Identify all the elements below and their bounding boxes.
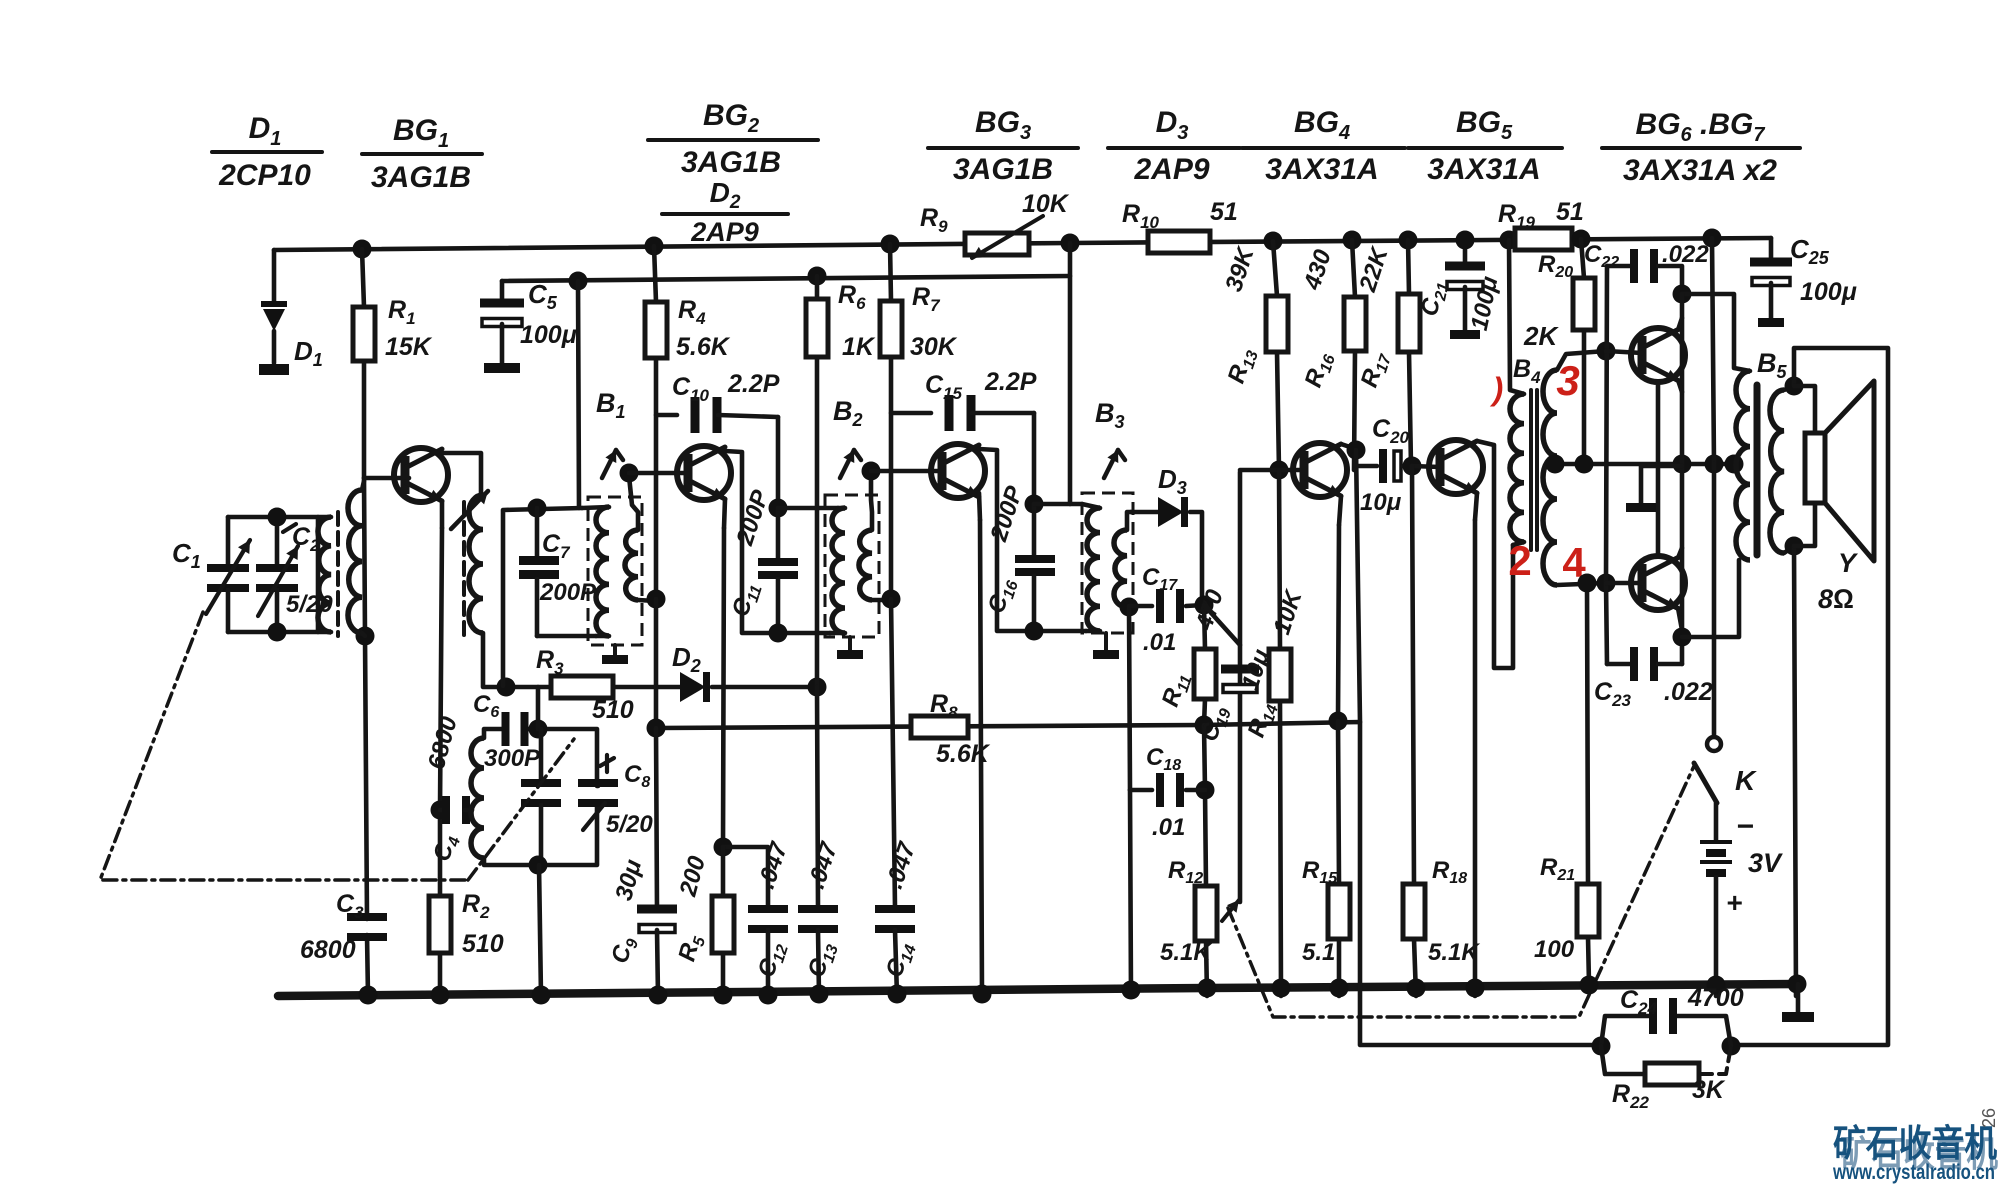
wire osc tank box	[484, 729, 597, 865]
label battery 3V	[1748, 848, 1783, 878]
svg-text:C4: C4	[428, 832, 464, 865]
wire R5 C12 jog	[723, 847, 768, 908]
svg-text:B5: B5	[1757, 348, 1788, 382]
label header BG2/3AG1B	[648, 99, 818, 179]
capacitor C9 electrolytic	[637, 728, 677, 996]
label R2 510	[462, 890, 504, 958]
transformer B4 primary	[1509, 240, 1524, 545]
svg-text:3AG1B: 3AG1B	[371, 161, 471, 194]
node R19 right rail junction	[1572, 230, 1591, 249]
resistor R13	[1266, 241, 1288, 470]
wire BG2 collector path	[725, 451, 830, 633]
wire BG6 emitter to BG7 collector	[1656, 382, 1661, 556]
wire BG3 emitter line	[979, 493, 982, 996]
node tap junction 1	[1546, 455, 1565, 474]
svg-text:D1: D1	[249, 112, 282, 150]
capacitor C21 electrolytic	[1445, 240, 1485, 339]
node R15 bottom rail junction	[1330, 979, 1349, 998]
svg-text:B4: B4	[1513, 355, 1541, 387]
node R6 top rail2 junction	[808, 267, 827, 286]
svg-text:R10: R10	[1122, 200, 1160, 232]
wire R1 line down to antenna coil bottom	[364, 478, 365, 636]
wire B3 slug arrow	[1104, 450, 1125, 478]
label C13 .047	[803, 838, 844, 982]
svg-text:BG6 .BG7: BG6 .BG7	[1636, 108, 1766, 146]
svg-text:Y: Y	[1838, 548, 1859, 578]
svg-text:C9: C9	[606, 934, 642, 967]
node R14 bottom rail junction	[1272, 979, 1291, 998]
wire antenna coil core	[336, 512, 340, 636]
node R2 bottom rail junction	[431, 986, 450, 1005]
svg-text:R12: R12	[1168, 857, 1203, 887]
svg-text:R4: R4	[678, 296, 706, 328]
svg-text:6800: 6800	[300, 936, 356, 964]
node battery bottom rail junction	[1707, 976, 1726, 995]
svg-text:1K: 1K	[842, 333, 876, 361]
node C22 right junction	[1673, 285, 1692, 304]
label R10 51	[1122, 198, 1238, 232]
label page number	[1979, 1108, 1999, 1128]
label C8 5/20	[606, 761, 653, 838]
svg-text:R6: R6	[838, 281, 866, 313]
wire R6 line down through D2 node	[817, 687, 818, 908]
wire C18 line to bottom rail	[1130, 790, 1131, 996]
node BG5 emitter bottom rail junction	[1466, 979, 1485, 998]
label red mark 2	[1508, 537, 1531, 584]
svg-text:D3: D3	[1158, 464, 1187, 498]
capacitor C5 electrolytic	[480, 281, 524, 373]
label C2 5/20	[286, 523, 333, 618]
label C17 .01	[1142, 564, 1178, 656]
node speaker line bottom rail junction	[1788, 975, 1807, 994]
label D3	[1158, 464, 1187, 498]
svg-text:2AP9: 2AP9	[1133, 153, 1209, 186]
wire osc coil bottom to R3 node	[483, 633, 551, 687]
svg-text:R2: R2	[462, 890, 490, 922]
svg-text:C12: C12	[753, 939, 792, 982]
resistor R21	[1577, 583, 1599, 984]
node tank bottom junction	[529, 856, 548, 875]
label header D2/2AP9	[662, 177, 788, 247]
wire AGC bus rail3	[656, 722, 1601, 1045]
svg-text:R21: R21	[1540, 854, 1575, 884]
diode D2	[680, 672, 707, 702]
label header BG6.BG7/3AX31Ax2	[1602, 108, 1800, 187]
inductor oscillator coil	[469, 495, 483, 633]
capacitor C16	[1015, 504, 1055, 631]
svg-text:39K: 39K	[1220, 243, 1260, 295]
node R7 top rail junction	[881, 235, 900, 254]
label header BG3/3AG1B	[928, 106, 1078, 186]
label R13 39K	[1220, 243, 1262, 388]
potentiometer R12	[1195, 886, 1239, 941]
svg-text:C24: C24	[1620, 986, 1658, 1018]
label R12 5.1K	[1160, 857, 1212, 966]
node C16 top junction	[1025, 495, 1044, 514]
wire B3 feed drop	[1068, 243, 1073, 504]
node D2 output junction	[808, 678, 827, 697]
ground bottom rail end	[1782, 984, 1814, 1022]
transformer B3 primary	[1082, 504, 1100, 631]
svg-text:C10: C10	[672, 373, 710, 405]
svg-text:BG5: BG5	[1456, 106, 1513, 144]
wire osc coil slug arrow	[451, 491, 488, 529]
svg-text:+: +	[1726, 887, 1742, 918]
wire R12 line	[1204, 725, 1207, 996]
watermark ghost	[1840, 1133, 1998, 1174]
node BG6 base junction	[1597, 342, 1616, 361]
label header BG4/3AX31A	[1242, 106, 1405, 186]
label R4 5.6K	[676, 296, 731, 361]
svg-text:C6: C6	[473, 691, 499, 721]
svg-text:2: 2	[1508, 537, 1531, 584]
variable capacitor C2	[256, 517, 298, 632]
transistor BG7	[1631, 556, 1685, 610]
svg-text:6800: 6800	[423, 713, 463, 772]
svg-text:C5: C5	[528, 279, 558, 313]
svg-text:100μ: 100μ	[520, 321, 577, 349]
wire bottom ground rail	[278, 984, 1798, 996]
label C9 30u	[606, 856, 647, 967]
svg-text:C20: C20	[1372, 415, 1410, 447]
svg-text:−: −	[1736, 810, 1754, 843]
wire B2 primary top wire	[778, 506, 838, 511]
wire C7 loop	[503, 508, 596, 686]
svg-text:C18: C18	[1146, 744, 1181, 774]
transformer B3 secondary	[1114, 512, 1131, 607]
svg-text:D2: D2	[672, 642, 701, 676]
svg-text:R16: R16	[1300, 349, 1339, 392]
node B5 secondary bottom junction	[1785, 537, 1804, 556]
node C16 bottom junction	[1025, 622, 1044, 641]
label R19 51	[1498, 198, 1584, 232]
svg-text:2CP10: 2CP10	[218, 159, 311, 192]
capacitor C12	[748, 905, 788, 996]
wire BG7 base wire	[1606, 581, 1642, 586]
label C22 .022	[1584, 241, 1709, 271]
node rail junction power feed	[1703, 229, 1722, 248]
svg-text:.022: .022	[1662, 241, 1709, 268]
transformer B4 core	[1531, 390, 1537, 550]
node C21 rail junction	[1456, 231, 1475, 250]
svg-text:.047: .047	[881, 838, 922, 892]
svg-text:C8: C8	[624, 761, 650, 791]
wire BG4 emitter line	[1338, 496, 1341, 721]
svg-text:R20: R20	[1538, 251, 1573, 281]
svg-text:R11: R11	[1157, 669, 1196, 711]
svg-text:R17: R17	[1356, 348, 1396, 392]
resistor R10	[1148, 231, 1210, 253]
label C23 .022	[1594, 678, 1713, 710]
svg-text:R8: R8	[930, 690, 958, 722]
svg-text:300P: 300P	[484, 745, 541, 772]
svg-text:3AX31A: 3AX31A	[1427, 153, 1540, 186]
wire BG7 emitter to B5 primary bottom	[1682, 560, 1739, 637]
label R1 15K	[385, 296, 433, 361]
svg-text:B2: B2	[833, 396, 863, 430]
label red mark 3	[1556, 357, 1579, 404]
wire BG6 emitter stub	[1678, 380, 1682, 392]
svg-text:200P: 200P	[985, 482, 1029, 546]
node R21 bottom rail junction	[1580, 976, 1599, 995]
diode D1	[259, 250, 289, 375]
svg-text:200P: 200P	[731, 486, 775, 550]
node tap junction R20	[1575, 455, 1594, 474]
wire C22 to B5 primary top	[1682, 294, 1750, 371]
label B1	[596, 388, 626, 422]
resistor R20	[1573, 239, 1595, 464]
node rail3 left junction	[647, 719, 666, 738]
svg-text:.022: .022	[1664, 678, 1713, 706]
label R5 200	[673, 853, 711, 965]
svg-text:51: 51	[1556, 198, 1584, 226]
node BG3 emitter bottom rail junction	[973, 985, 992, 1004]
label R3 510	[536, 646, 634, 724]
wire osc coil core dashed	[462, 502, 466, 640]
label C11 200P	[727, 486, 775, 621]
node C13 bottom rail junction	[810, 985, 829, 1004]
label D1	[294, 336, 323, 370]
capacitor C11	[758, 508, 798, 633]
node C2 bottom junction	[268, 623, 287, 642]
diode D3	[1131, 497, 1202, 605]
wire antenna line down to C3 and bottom rail	[365, 636, 368, 996]
node rail1 junction B3 feed	[1061, 234, 1080, 253]
label B5	[1757, 348, 1788, 382]
wire BG3 base wire	[871, 469, 943, 474]
label C24 4700	[1620, 984, 1744, 1018]
svg-text:BG3: BG3	[975, 106, 1031, 144]
label R16 430	[1299, 246, 1339, 392]
transistor BG2	[677, 446, 731, 500]
label R11 470	[1157, 586, 1229, 711]
ground center bias	[1626, 466, 1682, 512]
svg-text:D2: D2	[710, 177, 741, 213]
svg-text:10K: 10K	[1268, 586, 1308, 638]
node C11 bottom junction	[769, 624, 788, 643]
wire tank top up to R3 wire	[536, 687, 541, 729]
label R6 1K	[838, 281, 876, 361]
node R4 top rail junction	[645, 237, 664, 256]
capacitor C23	[1607, 647, 1682, 681]
label D2	[672, 642, 701, 676]
transformer B2 box	[825, 495, 879, 637]
wire BG2 emitter line	[723, 499, 725, 847]
svg-text:5.6K: 5.6K	[936, 740, 991, 768]
capacitor C25 electrolytic	[1750, 238, 1792, 327]
transformer B1 secondary	[625, 476, 656, 601]
svg-text:5.1K: 5.1K	[1428, 939, 1480, 966]
transformer B1 primary	[582, 507, 609, 636]
wire gang dash-dot linkage	[100, 612, 574, 880]
capacitor C15	[891, 395, 1034, 431]
node C7 top junction	[528, 499, 547, 518]
label R21 100	[1534, 854, 1575, 963]
node C4 tee junction	[431, 801, 450, 820]
svg-text:R5: R5	[673, 931, 709, 965]
label red mark 1	[1490, 371, 1504, 407]
variable capacitor C1	[206, 517, 250, 632]
node R5 bottom rail junction	[714, 986, 733, 1005]
label C5 100u	[520, 279, 577, 349]
wire R4 line down to rail3	[654, 599, 659, 728]
svg-text:3AX31A x2: 3AX31A x2	[1623, 154, 1777, 187]
label R22 3K	[1612, 1076, 1726, 1112]
label header D3/2AP9	[1108, 106, 1240, 186]
label red mark 4	[1562, 539, 1586, 586]
node C24 left junction	[1592, 1037, 1611, 1056]
svg-text:R13: R13	[1223, 345, 1262, 388]
svg-text:30μ: 30μ	[610, 856, 647, 903]
resistor R22	[1645, 1063, 1699, 1085]
node R12 bottom rail junction	[1198, 979, 1217, 998]
transformer B5 core	[1754, 385, 1761, 555]
wire BG1 base wire	[364, 476, 409, 481]
wire secondary loop to feedback	[1731, 348, 1888, 1045]
node tap junction right	[1725, 455, 1744, 474]
capacitor C3	[347, 913, 387, 941]
node R21 top junction	[1578, 574, 1597, 593]
resistor R4	[645, 246, 667, 599]
resistor R2	[429, 896, 451, 953]
svg-text:D1: D1	[294, 336, 323, 370]
resistor R7	[880, 244, 902, 599]
label C21 100u	[1416, 273, 1504, 332]
label C19 10u	[1196, 645, 1276, 745]
node R3 wire junction	[497, 678, 516, 697]
node tap junction switchline	[1705, 455, 1724, 474]
svg-text:.01: .01	[1143, 629, 1176, 656]
svg-text:5.1K: 5.1K	[1160, 939, 1212, 966]
ground B3 shield	[1093, 633, 1119, 659]
label C16 200P	[983, 482, 1029, 618]
ground B1 shield	[602, 645, 628, 664]
label header BG5/3AX31A	[1408, 106, 1562, 186]
svg-text:3AX31A: 3AX31A	[1265, 153, 1378, 186]
svg-text:2.2P: 2.2P	[984, 368, 1037, 396]
node C24 right junction	[1722, 1037, 1741, 1056]
svg-text:C1: C1	[172, 538, 201, 572]
label C1	[172, 538, 201, 572]
svg-text:C13: C13	[803, 939, 842, 982]
node BG7 base junction	[1597, 574, 1616, 593]
label R14 10K	[1243, 586, 1308, 742]
label C12 .047	[753, 838, 794, 982]
svg-text:430: 430	[1299, 246, 1338, 294]
wire B4 center tap	[1553, 462, 1734, 467]
svg-text:www.crystalradio.cn: www.crystalradio.cn	[1832, 1161, 1995, 1184]
wire BG6 base wire	[1606, 351, 1642, 353]
node C3 bottom rail junction	[359, 986, 378, 1005]
variable capacitor osc trimmer	[521, 729, 561, 865]
inductor antenna coil primary	[318, 517, 331, 632]
svg-text:100: 100	[1534, 936, 1575, 963]
svg-text:3V: 3V	[1748, 848, 1783, 878]
node B2 secondary bottom junction	[882, 590, 901, 609]
transformer B5 secondary	[1770, 386, 1794, 553]
svg-text:26: 26	[1979, 1108, 1999, 1128]
svg-text:5.6K: 5.6K	[676, 333, 731, 361]
transistor BG1	[394, 448, 448, 502]
node C17 left junction	[1120, 598, 1139, 617]
wire BG1 collector to osc coil	[442, 453, 481, 495]
svg-text:510: 510	[592, 696, 634, 724]
node R13 top rail junction	[1264, 232, 1283, 251]
label C15 2.2P	[925, 368, 1037, 403]
wire B5 secondary bottom to rail	[1794, 546, 1796, 996]
capacitor C22	[1607, 249, 1682, 294]
wire C15 right drop	[1032, 413, 1037, 504]
svg-text:C17: C17	[1142, 564, 1178, 594]
node tank line bottom rail junction	[532, 986, 551, 1005]
capacitor C7	[519, 508, 559, 636]
wire BG4 collector to C20	[1341, 444, 1360, 722]
svg-text:R14: R14	[1243, 699, 1282, 742]
capacitor C18	[1130, 773, 1205, 807]
node BG4 base junction	[1270, 461, 1289, 480]
svg-text:3: 3	[1556, 357, 1579, 404]
svg-text:BG1: BG1	[393, 114, 449, 152]
label C7 200P	[539, 530, 597, 606]
wire B3 secondary bottom line	[1129, 607, 1130, 790]
wire BG3 collector path	[979, 449, 1086, 631]
svg-text:C21: C21	[1416, 278, 1453, 319]
wire B1 feed drop	[578, 281, 579, 508]
wire power feed to switch	[1712, 238, 1714, 735]
potentiometer R9	[965, 216, 1043, 258]
label C6 300P	[473, 691, 541, 772]
watermark main	[1833, 1123, 1997, 1164]
wire BG1 emitter down	[440, 501, 442, 810]
node BG5 base junction	[1403, 457, 1422, 476]
svg-text:C15: C15	[925, 371, 963, 403]
svg-text:3AG1B: 3AG1B	[953, 153, 1053, 186]
svg-text:8Ω: 8Ω	[1818, 584, 1854, 614]
node BG7 emitter junction	[1673, 628, 1692, 647]
label R15 5.1	[1302, 857, 1338, 966]
capacitor C17	[1129, 589, 1204, 623]
wire BG5 emitter line	[1475, 493, 1477, 996]
label R17 22K	[1354, 243, 1395, 392]
label Y 8ohm	[1818, 548, 1859, 614]
svg-text:C11: C11	[727, 579, 766, 621]
label C10 2.2P	[672, 370, 780, 405]
node C12 bottom rail junction	[759, 986, 778, 1005]
svg-text:4700: 4700	[1687, 984, 1744, 1012]
svg-text:30K: 30K	[910, 333, 958, 361]
wire B3 primary top wire	[1034, 502, 1082, 507]
battery B 3V	[1700, 803, 1732, 996]
node R18 bottom rail junction	[1407, 979, 1426, 998]
wire BG5 collector U path	[1477, 441, 1513, 668]
transformer B2 secondary	[859, 471, 891, 600]
svg-text:.01: .01	[1152, 814, 1185, 841]
label R8 5.6K	[930, 690, 991, 768]
speaker Y	[1794, 381, 1874, 561]
wire second supply rail	[502, 276, 1070, 281]
svg-text:R19: R19	[1498, 200, 1536, 232]
transistor BG4	[1293, 443, 1347, 497]
transistor BG5	[1429, 440, 1483, 494]
svg-text:矿石收音机: 矿石收音机	[1833, 1123, 1997, 1164]
label C18 .01	[1146, 744, 1185, 841]
capacitor C14	[875, 905, 915, 996]
label C25 100u	[1790, 234, 1857, 306]
svg-text:10K: 10K	[1022, 190, 1070, 218]
svg-text:5.1: 5.1	[1302, 939, 1335, 966]
wire diagonal to C19	[1204, 605, 1240, 645]
inductor antenna coil secondary	[348, 481, 365, 636]
